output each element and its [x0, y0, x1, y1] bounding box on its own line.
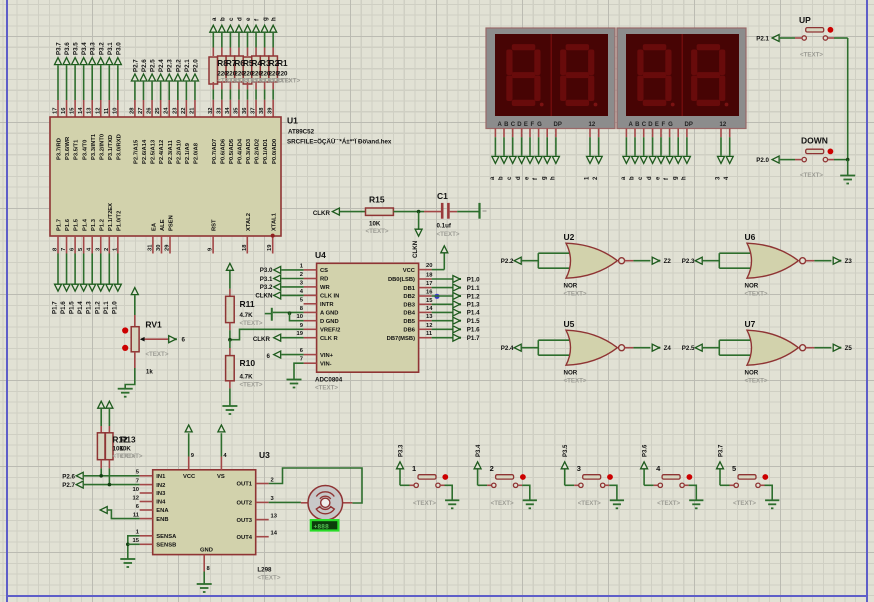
wire ground to AGND and DGND	[273, 311, 304, 313]
microcontroller U1 AT89C52	[50, 117, 281, 236]
svg-text:Z2: Z2	[664, 258, 672, 265]
button contacts	[802, 36, 806, 40]
wire CLKN to U4	[281, 294, 303, 296]
svg-text:28: 28	[129, 107, 135, 114]
wire button 3 to ground	[605, 484, 609, 486]
svg-text:6: 6	[182, 337, 186, 344]
wire GND pin to ground	[203, 572, 205, 584]
svg-text:9: 9	[300, 323, 304, 329]
svg-text:CLK IN: CLK IN	[320, 294, 339, 300]
wire P3.2 to U4	[281, 286, 303, 288]
potentiometer RV1	[131, 327, 139, 352]
U3 pin 11 ENB	[140, 518, 153, 520]
svg-text:<TEXT>: <TEXT>	[315, 385, 338, 392]
wire U4 DB7(MSB) to terminal P1.7	[432, 337, 454, 339]
svg-text:38: 38	[259, 107, 265, 114]
svg-text:g: g	[673, 176, 679, 180]
svg-text:h: h	[550, 176, 556, 180]
svg-text:P3.1: P3.1	[107, 42, 114, 55]
terminal Z3	[833, 257, 840, 264]
svg-text:8: 8	[207, 566, 211, 572]
svg-text:<TEXT>: <TEXT>	[257, 575, 280, 582]
svg-text:P1.7: P1.7	[57, 219, 63, 231]
svg-text:F: F	[662, 122, 666, 128]
svg-text:4: 4	[300, 289, 304, 295]
U3 pin 9 VCC	[188, 457, 190, 470]
svg-text:3: 3	[716, 176, 722, 180]
svg-text:<TEXT>: <TEXT>	[491, 500, 514, 507]
U4 pin 14 DB4	[419, 311, 432, 313]
svg-text:DB2: DB2	[403, 294, 415, 300]
svg-text:13: 13	[426, 314, 433, 320]
svg-text:DB6: DB6	[403, 328, 415, 334]
svg-text:P1.5: P1.5	[467, 318, 480, 325]
svg-text:e: e	[245, 17, 252, 21]
wire P3.7 to U1 pin 17	[57, 65, 59, 100]
ADC U4 ADC0804	[317, 263, 419, 372]
svg-text:DOWN: DOWN	[801, 136, 828, 146]
svg-text:11: 11	[133, 512, 140, 518]
svg-text:NOR: NOR	[564, 283, 578, 290]
svg-text:P1.5: P1.5	[69, 301, 76, 314]
wire net f to R3	[255, 48, 257, 57]
power arrow above RV1	[131, 288, 138, 295]
wire U1 pin 2 to terminal P1.1	[108, 236, 110, 254]
power arrow above U3 VS	[220, 433, 222, 456]
svg-text:P3.0: P3.0	[260, 267, 273, 274]
button contacts	[802, 157, 806, 161]
svg-text:P1.7: P1.7	[467, 335, 480, 342]
svg-text:PSEN: PSEN	[169, 215, 175, 231]
U3 pin 10 IN3	[140, 492, 153, 494]
wire P2.6 to U1 pin 27	[142, 82, 144, 100]
svg-text:P3.5/T1: P3.5/T1	[74, 139, 80, 160]
bar terminal	[478, 203, 480, 219]
wire P2.1 to U1 pin 22	[185, 82, 187, 100]
display pin f	[538, 129, 540, 138]
svg-text:10K: 10K	[369, 221, 381, 228]
signal ground for U4 AGND/DGND	[265, 313, 271, 315]
svg-text:14: 14	[78, 107, 84, 114]
display pin h	[686, 129, 688, 138]
wire U6 output to Z3	[806, 260, 815, 262]
7-segment display frame	[617, 28, 746, 129]
svg-text:AT89C52: AT89C52	[288, 129, 315, 136]
svg-text:15: 15	[70, 107, 76, 114]
svg-text:P3.2: P3.2	[98, 42, 105, 55]
wire R2 to U1 pin 38	[264, 82, 266, 89]
U3 pin 4 VS	[220, 457, 222, 470]
svg-text:2: 2	[593, 176, 599, 180]
wire P3.5 to button 3	[564, 469, 566, 485]
U4 pin 9 VREF/2	[304, 328, 317, 330]
svg-text:P3.4: P3.4	[81, 42, 88, 55]
svg-text:1: 1	[300, 263, 304, 269]
svg-text:VCC: VCC	[183, 474, 196, 480]
svg-text:3: 3	[300, 280, 304, 286]
resistor R4	[243, 57, 252, 84]
svg-text:P3.7: P3.7	[719, 444, 725, 457]
svg-text:31: 31	[147, 244, 153, 251]
wire net e to R4	[247, 48, 249, 57]
svg-text:RST: RST	[212, 219, 218, 231]
power arrow above R11	[226, 263, 233, 270]
7-segment display frame	[486, 28, 615, 129]
svg-text:1: 1	[136, 530, 140, 536]
svg-text:XTAL2: XTAL2	[246, 213, 252, 231]
sheet border bottom	[6, 595, 868, 597]
wire P3.1 to U1 pin 11	[108, 65, 110, 100]
svg-text:P1.1/T2EX: P1.1/T2EX	[108, 203, 114, 231]
button actuator bar	[806, 28, 824, 32]
svg-text:6: 6	[300, 348, 304, 354]
svg-text:P2.2/A10: P2.2/A10	[176, 140, 182, 164]
svg-text:G: G	[537, 122, 542, 128]
terminal P1.3	[453, 301, 460, 308]
svg-text:G: G	[668, 122, 673, 128]
svg-text:18: 18	[242, 244, 248, 251]
power arrow above U3 VCC	[188, 433, 190, 456]
wire net a to R8	[212, 48, 214, 57]
svg-text:h: h	[271, 17, 278, 21]
wire U1 pin 3 to terminal P1.2	[100, 236, 102, 254]
svg-text:P3.1/TXD: P3.1/TXD	[108, 135, 114, 160]
svg-text:U7: U7	[745, 319, 756, 329]
terminal P1.3	[89, 284, 96, 291]
wire P2.5 to U1 pin 26	[151, 82, 153, 100]
svg-text:ADC0804: ADC0804	[315, 377, 343, 384]
wire net b to R7	[221, 48, 223, 57]
wire arrow to R11	[229, 271, 231, 289]
svg-text:P2.2: P2.2	[501, 258, 514, 265]
svg-text:P3.6: P3.6	[643, 444, 649, 457]
svg-text:15: 15	[133, 538, 140, 544]
U3 pin 8 GND	[203, 555, 205, 572]
svg-text:21: 21	[189, 107, 195, 114]
display pin b	[503, 129, 505, 138]
wire R7 to U1 pin 33	[221, 82, 223, 89]
display pin 2	[598, 129, 600, 138]
svg-text:P3.3: P3.3	[399, 444, 405, 457]
wire R6 to U1 pin 34	[229, 82, 231, 89]
wire P3.4 to button 2	[477, 469, 479, 485]
svg-text:6: 6	[136, 504, 140, 510]
display pin a	[625, 129, 627, 138]
svg-text:P2.0: P2.0	[756, 157, 769, 164]
svg-text:15: 15	[426, 298, 433, 304]
svg-text:9: 9	[191, 453, 195, 459]
svg-text:g: g	[542, 176, 548, 180]
svg-text:35: 35	[233, 107, 239, 114]
svg-text:12: 12	[589, 122, 596, 128]
svg-text:GND: GND	[200, 548, 213, 554]
display pin d	[521, 129, 523, 138]
display pin e	[529, 129, 531, 138]
wire U3 OUT2 to motor	[269, 501, 301, 503]
U4 pin 3 WR	[304, 286, 317, 288]
U4 pin 17 DB1	[419, 287, 432, 289]
svg-text:a: a	[621, 176, 627, 180]
U4 pin 15 DB3	[419, 303, 432, 305]
svg-text:c: c	[638, 176, 644, 180]
wire button 1 to ground	[440, 484, 444, 486]
svg-text:INTR: INTR	[320, 302, 334, 308]
U4 pin 11 DB7(MSB)	[419, 337, 432, 339]
wire VREF/2 to divider	[230, 329, 304, 339]
svg-text:OUT1: OUT1	[237, 482, 253, 488]
wire P2.6 to U3 IN1	[84, 475, 140, 477]
wire R1 to U1 pin 39	[272, 82, 274, 89]
svg-text:A: A	[629, 122, 634, 128]
svg-text:30: 30	[156, 245, 162, 251]
motor driver U3 L298	[153, 470, 256, 555]
wire U1 pin 6 to terminal P1.5	[74, 236, 76, 254]
wire U4 DB0(LSB) to terminal P1.0	[432, 278, 454, 280]
wire P2.7 to U1 pin 28	[134, 82, 136, 100]
ground for button 3	[610, 499, 624, 501]
svg-text:P3.6: P3.6	[64, 42, 71, 55]
svg-text:CLKN: CLKN	[255, 293, 273, 300]
display pin b	[634, 129, 636, 138]
svg-text:P2.6/A14: P2.6/A14	[142, 139, 148, 164]
svg-text:P3.2/INT0: P3.2/INT0	[99, 134, 105, 160]
wire U4 DB4 to terminal P1.4	[432, 311, 454, 313]
svg-text:P2.7/A15: P2.7/A15	[134, 139, 140, 164]
wire P3.3 to button 1	[399, 469, 401, 485]
wire R5 to U1 pin 35	[238, 82, 240, 89]
terminal P1.7	[453, 334, 460, 341]
display pin 1	[589, 129, 591, 138]
svg-text:OUT3: OUT3	[237, 518, 253, 524]
ground below SENS	[120, 558, 135, 560]
pushbutton 3	[583, 475, 601, 479]
wire CLKR to R15	[340, 211, 366, 213]
wire net c to R6	[229, 48, 231, 57]
wire P3.1 to U4	[281, 278, 303, 280]
svg-text:U5: U5	[564, 319, 575, 329]
svg-text:12: 12	[426, 323, 432, 329]
svg-text:P3.0: P3.0	[115, 42, 122, 55]
svg-text:VCC: VCC	[403, 268, 416, 274]
display pin 3	[720, 129, 722, 138]
svg-text:P2.5/A13: P2.5/A13	[151, 139, 157, 164]
resistor R5	[235, 56, 244, 82]
terminal Z4	[652, 344, 659, 351]
U4 pin 4 CLK IN	[304, 294, 317, 296]
svg-text:<TEXT>: <TEXT>	[745, 378, 768, 385]
pushbutton 5	[738, 475, 756, 479]
display pin g	[677, 129, 679, 138]
svg-text:<TEXT>: <TEXT>	[578, 500, 601, 507]
svg-text:<TEXT>: <TEXT>	[366, 228, 389, 235]
svg-text:WR: WR	[320, 285, 330, 291]
wire P3.3 to U1 pin 13	[91, 65, 93, 100]
wire R8 to U1 pin 32	[212, 82, 214, 89]
svg-text:D: D	[648, 122, 653, 128]
wire P2.3 to U6 inputs	[703, 260, 720, 262]
wire P3.0 to U1 pin 10	[117, 65, 119, 100]
svg-text:B: B	[504, 122, 509, 128]
wire button 4 to ground	[684, 484, 688, 486]
U1 pin 29 stub	[169, 236, 171, 254]
terminal 6 at RV1 wiper	[169, 336, 176, 343]
U3 pin 6 ENA	[140, 509, 153, 511]
svg-text:16: 16	[426, 290, 433, 296]
wire C1 to terminal	[450, 211, 458, 213]
svg-text:P1.1: P1.1	[467, 285, 480, 292]
svg-text:R10: R10	[240, 358, 256, 368]
svg-text:P0.5/AD5: P0.5/AD5	[229, 138, 235, 164]
button actuator bar	[806, 149, 824, 153]
svg-text:2: 2	[300, 272, 303, 278]
ground for button 4	[689, 499, 703, 501]
svg-text:P0.7/AD7: P0.7/AD7	[212, 139, 218, 164]
resistor R11	[226, 296, 235, 322]
U4 pin 18 DB0(LSB)	[419, 278, 432, 280]
wire R13 down	[108, 460, 110, 469]
svg-text:<TEXT>: <TEXT>	[745, 291, 768, 298]
wire P2.4 to U1 pin 25	[160, 82, 162, 100]
terminal P1.2	[97, 284, 104, 291]
svg-text:34: 34	[225, 107, 231, 114]
terminal Z2	[652, 257, 659, 264]
ground below RV1	[118, 388, 133, 390]
svg-text:7: 7	[300, 357, 303, 363]
svg-text:d: d	[516, 176, 522, 180]
svg-text:P0.4/AD4: P0.4/AD4	[238, 138, 244, 164]
display pin h	[555, 129, 557, 138]
svg-text:20: 20	[426, 263, 432, 269]
wire U5 output to Z4	[625, 347, 634, 349]
svg-text:16: 16	[61, 107, 67, 114]
wire U2 output to Z2	[625, 260, 634, 262]
svg-text:Z4: Z4	[664, 345, 672, 352]
svg-text:SENSB: SENSB	[156, 543, 176, 549]
svg-text:DB3: DB3	[403, 303, 415, 309]
svg-text:Z3: Z3	[845, 258, 853, 265]
svg-text:IN1: IN1	[156, 474, 166, 480]
svg-text:CLKN: CLKN	[412, 240, 419, 258]
svg-text:OUT4: OUT4	[237, 535, 253, 541]
NOR gate U6	[747, 243, 798, 278]
resistor R12	[97, 433, 105, 460]
svg-text:U2: U2	[564, 232, 575, 242]
pushbutton 1	[418, 475, 436, 479]
svg-text:24: 24	[164, 107, 170, 114]
wire P3.2 to U1 pin 12	[100, 65, 102, 100]
svg-text:A: A	[498, 122, 503, 128]
svg-text:U3: U3	[259, 450, 270, 460]
svg-text:DB7(MSB): DB7(MSB)	[387, 336, 415, 342]
power arrow above R13	[106, 401, 113, 408]
svg-text:P0.6/AD6: P0.6/AD6	[220, 138, 226, 164]
svg-text:b: b	[219, 17, 226, 21]
svg-text:f: f	[254, 18, 261, 21]
junction blue dot	[434, 294, 439, 299]
svg-text:23: 23	[172, 107, 178, 114]
resistor R1	[269, 56, 278, 82]
svg-text:P2.1: P2.1	[184, 59, 191, 72]
svg-text:<TEXT>: <TEXT>	[240, 382, 263, 389]
wire U1 pin 4 to terminal P1.3	[91, 236, 93, 254]
svg-text:P3.7/RD: P3.7/RD	[57, 138, 63, 160]
motor MOTOR	[308, 486, 343, 521]
svg-text:7: 7	[136, 478, 139, 484]
ground for UP/DOWN	[847, 160, 849, 176]
svg-text:37: 37	[251, 108, 257, 114]
U1 pin 30 stub	[161, 236, 163, 254]
wire U3 OUT1 to motor (top route)	[269, 468, 362, 503]
svg-text:XTAL1: XTAL1	[271, 212, 277, 231]
svg-text:P2.3: P2.3	[682, 258, 695, 265]
svg-text:P2.3: P2.3	[167, 59, 174, 72]
svg-text:C: C	[642, 122, 647, 128]
svg-text:P0.1/AD1: P0.1/AD1	[263, 138, 269, 164]
svg-text:<TEXT>: <TEXT>	[277, 78, 300, 85]
wire P2.1 to UP button	[780, 37, 795, 39]
U4 pin 7 VIN-	[304, 362, 317, 364]
svg-text:R11: R11	[240, 299, 255, 309]
wire P3.6 to U1 pin 16	[66, 65, 68, 100]
wire DOWN button to rail	[828, 159, 834, 161]
svg-text:b: b	[499, 176, 505, 180]
svg-text:DB1: DB1	[403, 286, 415, 292]
svg-text:10: 10	[297, 314, 303, 320]
display pin 4	[729, 129, 731, 138]
svg-text:Z5: Z5	[845, 345, 853, 352]
svg-text:P3.4/T0: P3.4/T0	[82, 140, 88, 160]
svg-text:P2.0/A8: P2.0/A8	[194, 142, 200, 164]
svg-text:R1: R1	[277, 59, 288, 68]
svg-text:10: 10	[112, 108, 118, 114]
svg-text:P1.4: P1.4	[82, 218, 88, 231]
U3 pin 12 IN4	[140, 501, 153, 503]
svg-text:1k: 1k	[146, 369, 153, 376]
button red actuator dot	[828, 27, 834, 33]
svg-text:A GND: A GND	[320, 311, 338, 317]
pushbutton 4	[662, 475, 680, 479]
svg-text:CLKR: CLKR	[253, 336, 271, 343]
svg-text:36: 36	[242, 107, 248, 114]
wire U1 pin 7 to terminal P1.6	[66, 236, 68, 254]
svg-text:F: F	[531, 122, 535, 128]
svg-text:f: f	[664, 177, 670, 180]
terminal P1.6	[63, 284, 70, 291]
svg-text:P3.3/INT1: P3.3/INT1	[91, 133, 97, 160]
sheet border left	[6, 0, 8, 602]
svg-text:P1.0: P1.0	[467, 276, 480, 283]
svg-text:d: d	[236, 17, 243, 21]
svg-text:P1.4: P1.4	[77, 301, 84, 314]
svg-text:33: 33	[216, 107, 222, 114]
svg-text:P1.1: P1.1	[103, 301, 110, 314]
svg-text:P1.2: P1.2	[99, 219, 105, 231]
svg-text:U6: U6	[745, 232, 756, 242]
svg-text:E: E	[524, 122, 528, 128]
wire P2.2 to U2 inputs	[522, 260, 539, 262]
wire VIN- to ground	[294, 363, 304, 379]
wire U4 DB1 to terminal P1.1	[432, 287, 454, 289]
NOR gate U2	[566, 243, 617, 278]
svg-text:4: 4	[724, 176, 730, 180]
U4 pin 8 A GND	[304, 311, 317, 313]
terminal P1.4	[80, 284, 87, 291]
svg-text:P3.6/WR: P3.6/WR	[65, 136, 71, 160]
svg-text:12: 12	[720, 122, 727, 128]
resistor R6	[226, 56, 235, 82]
svg-text:2: 2	[104, 248, 110, 251]
U1 pin 31 stub	[152, 236, 154, 254]
